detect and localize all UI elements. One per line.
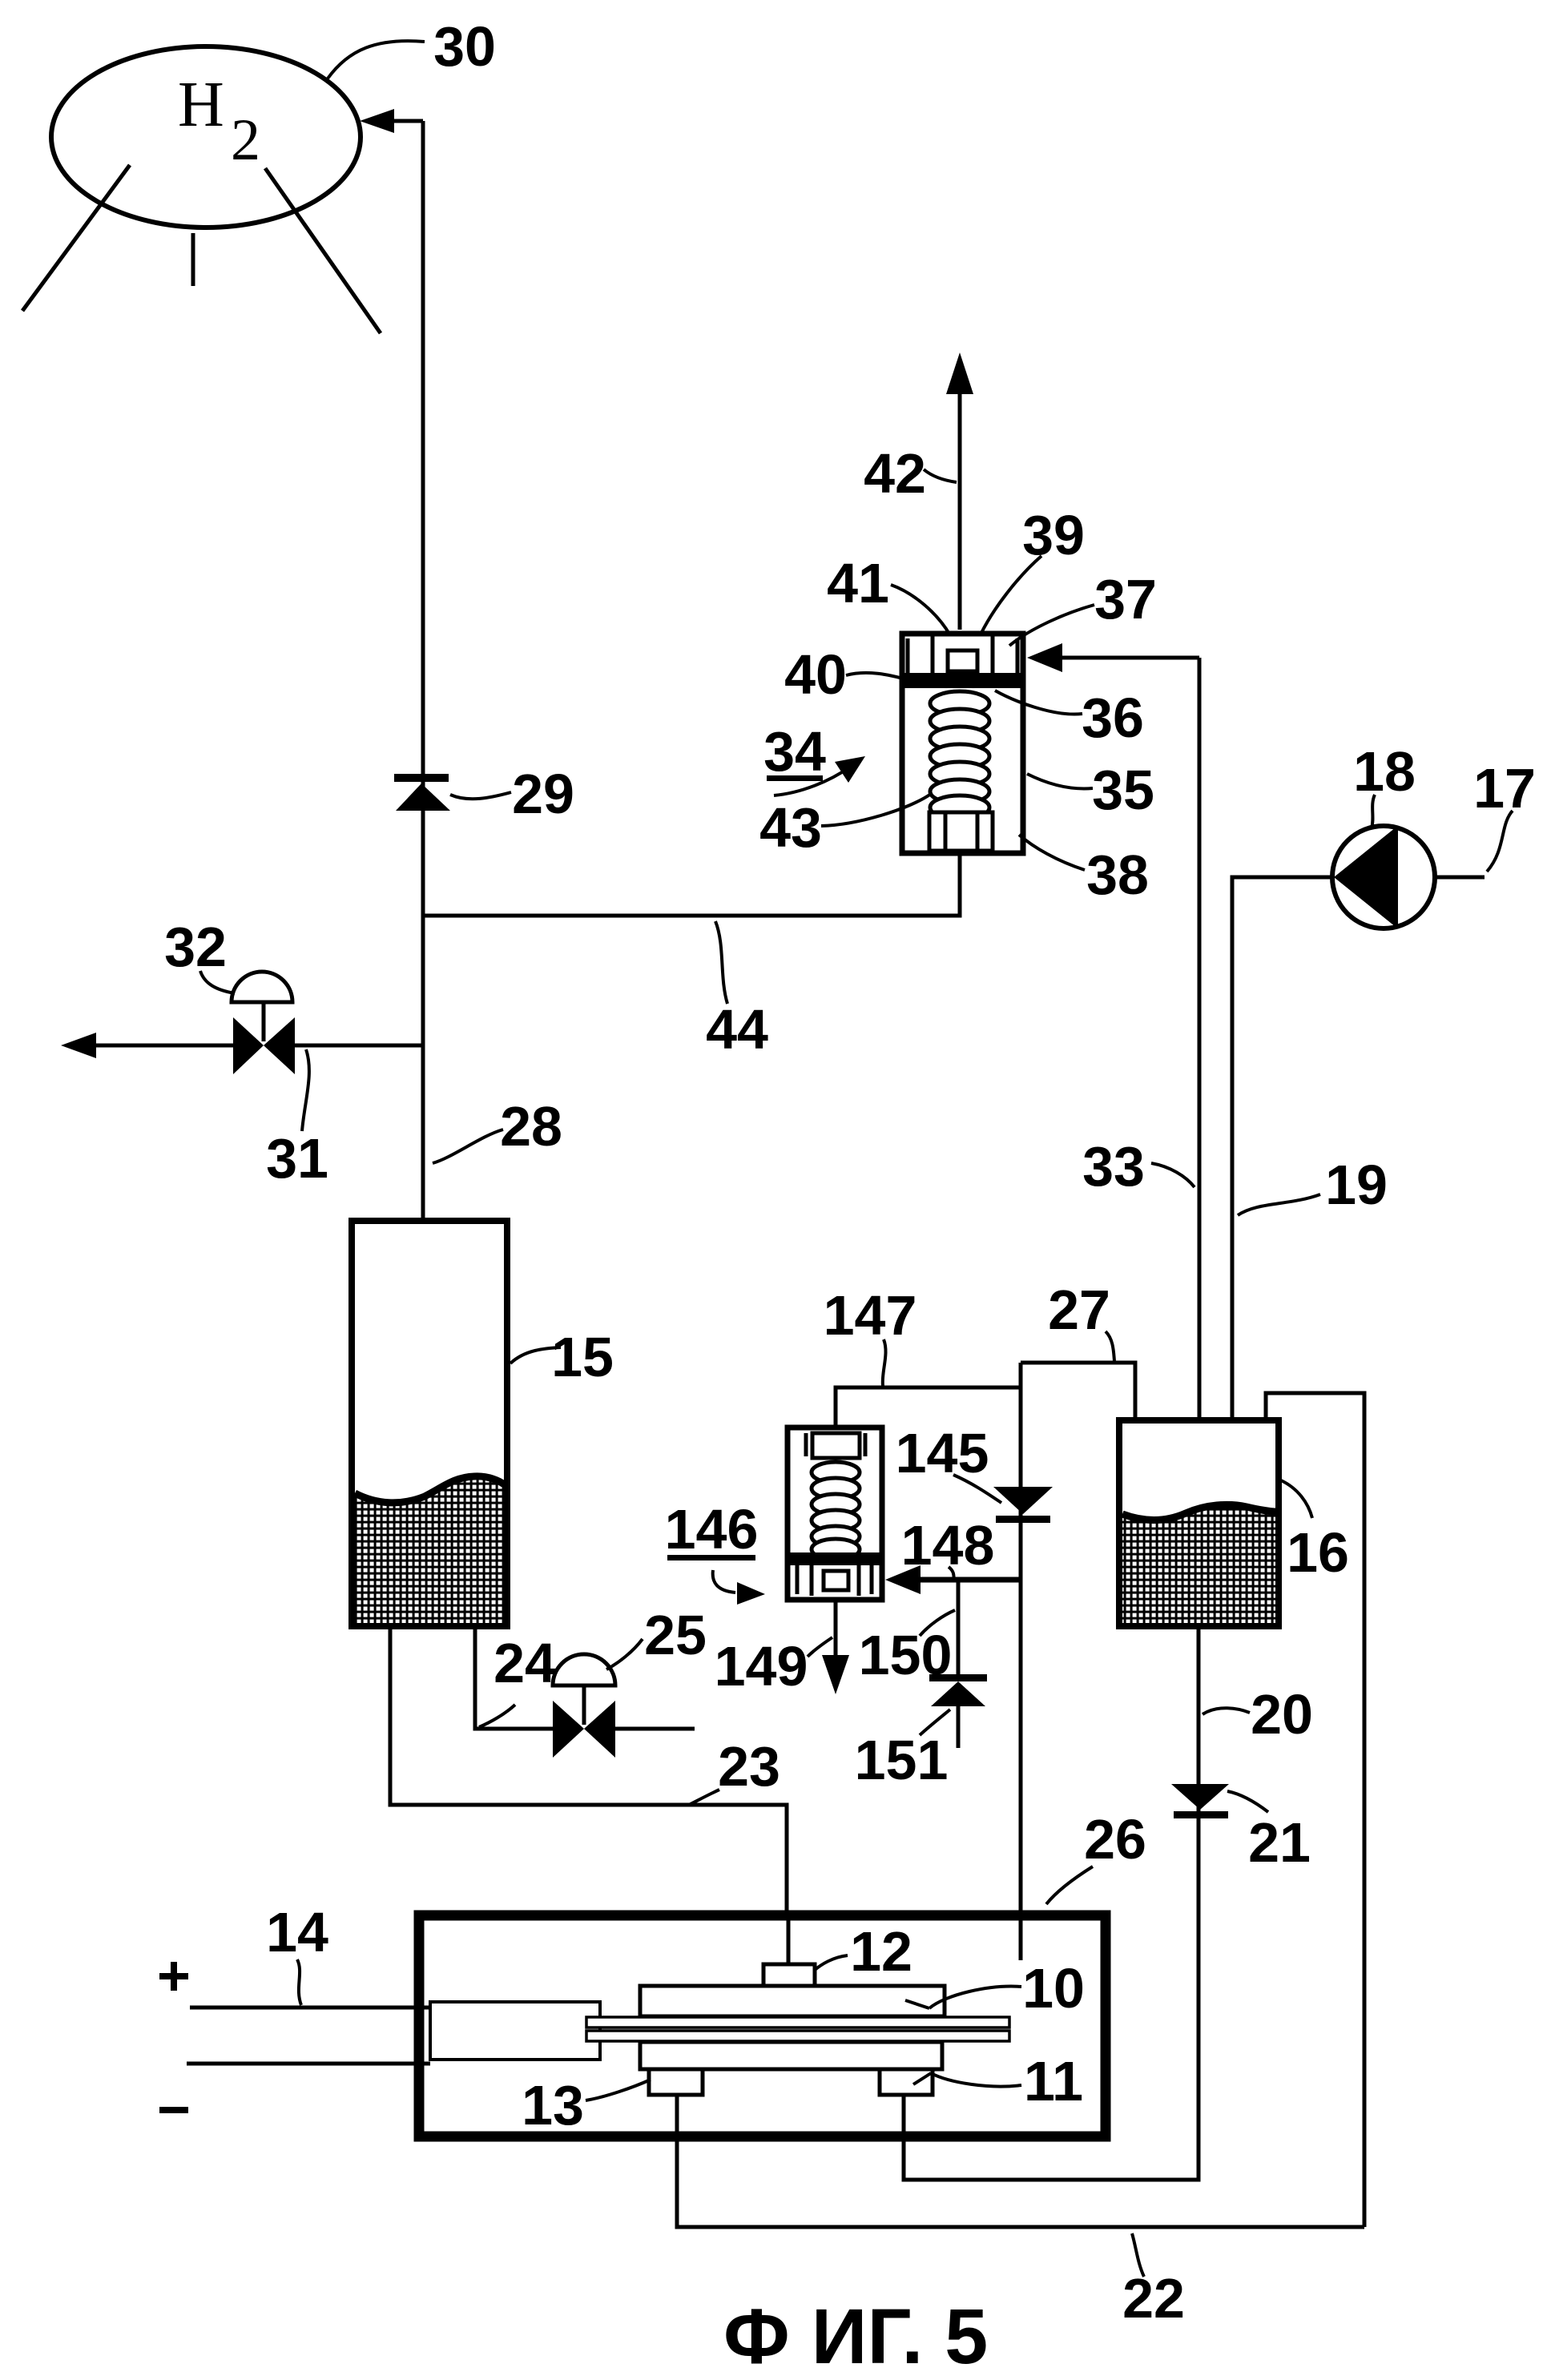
svg-text:20: 20 (1251, 1683, 1313, 1746)
svg-text:39: 39 (1022, 504, 1085, 566)
svg-text:43: 43 (759, 796, 822, 859)
svg-text:147: 147 (824, 1284, 917, 1347)
svg-text:35: 35 (1092, 759, 1154, 821)
svg-text:11: 11 (1024, 2050, 1083, 2112)
svg-text:146: 146 (665, 1498, 759, 1560)
svg-text:17: 17 (1473, 757, 1536, 820)
svg-text:Ф ИГ. 5: Ф ИГ. 5 (723, 2293, 988, 2380)
svg-text:19: 19 (1325, 1154, 1388, 1216)
svg-text:12: 12 (850, 1920, 912, 1983)
svg-text:34: 34 (763, 720, 826, 783)
svg-text:37: 37 (1094, 568, 1157, 630)
svg-text:33: 33 (1082, 1135, 1145, 1198)
svg-text:38: 38 (1086, 844, 1149, 906)
svg-text:31: 31 (266, 1127, 328, 1190)
svg-text:21: 21 (1248, 1811, 1311, 1874)
svg-text:40: 40 (784, 643, 847, 706)
svg-text:36: 36 (1082, 687, 1144, 749)
svg-text:29: 29 (512, 763, 574, 825)
svg-text:27: 27 (1048, 1279, 1110, 1341)
svg-text:10: 10 (1022, 1957, 1085, 2020)
svg-text:25: 25 (644, 1604, 707, 1666)
svg-text:32: 32 (164, 916, 227, 978)
svg-text:16: 16 (1287, 1521, 1349, 1584)
svg-text:149: 149 (715, 1635, 808, 1697)
svg-text:14: 14 (266, 1901, 328, 1963)
svg-text:145: 145 (896, 1422, 989, 1484)
svg-text:41: 41 (827, 552, 889, 614)
svg-text:30: 30 (433, 15, 496, 78)
svg-text:22: 22 (1122, 2267, 1185, 2330)
svg-text:13: 13 (522, 2074, 584, 2136)
svg-text:H: H (178, 70, 224, 140)
svg-text:42: 42 (864, 442, 926, 505)
svg-text:151: 151 (855, 1729, 949, 1791)
svg-text:44: 44 (706, 998, 768, 1061)
svg-text:15: 15 (551, 1326, 614, 1388)
svg-text:24: 24 (493, 1632, 556, 1694)
svg-text:26: 26 (1084, 1808, 1146, 1871)
svg-text:148: 148 (901, 1514, 995, 1577)
svg-text:150: 150 (859, 1624, 953, 1686)
svg-text:23: 23 (718, 1735, 780, 1798)
svg-text:2: 2 (231, 107, 260, 173)
svg-text:28: 28 (500, 1095, 562, 1158)
svg-text:18: 18 (1353, 740, 1416, 803)
